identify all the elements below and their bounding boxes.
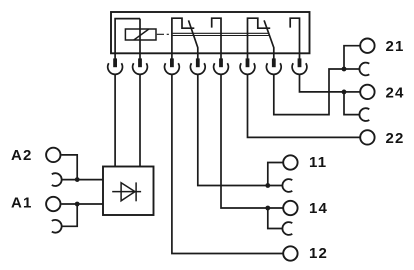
female socket below 24 xyxy=(359,108,369,121)
svg-text:A1: A1 xyxy=(11,195,33,212)
wire node 24 drop to female socket below 24 xyxy=(344,92,359,115)
plug contact circle 24 xyxy=(360,85,374,99)
junction node 11 xyxy=(265,183,270,188)
plug contact circle A1 xyxy=(46,197,60,211)
wire A1 socket riser to node A1 xyxy=(62,204,77,226)
wire node 21 riser to socket 21 xyxy=(344,46,360,69)
svg-text:11: 11 xyxy=(309,154,327,171)
junction node 24 xyxy=(342,90,347,95)
wire terminal 5 to socket 14 net xyxy=(221,75,283,208)
wire terminal 1 to rectifier box xyxy=(114,75,116,167)
wire A2 circle to node A2 xyxy=(61,155,77,180)
relay enclosure box xyxy=(111,12,310,53)
coil wire from terminal 1 (up and over) xyxy=(115,19,140,60)
terminal pin 6 xyxy=(246,58,250,67)
svg-text:A2: A2 xyxy=(11,147,33,164)
female socket below A1 xyxy=(52,220,62,233)
plug contact circle 22 xyxy=(360,130,374,144)
terminal pin 3 xyxy=(170,58,174,67)
wire terminal 6 to socket 22 xyxy=(248,75,360,138)
terminal socket 8 xyxy=(292,63,307,74)
terminal pin 2 xyxy=(138,58,142,67)
contact 1 NO fixed contact (terminal 5) xyxy=(212,18,221,59)
mechanical link double line xyxy=(173,33,269,35)
plug contact circle A2 xyxy=(46,148,60,162)
junction node 21 xyxy=(342,67,347,72)
female socket below A2 xyxy=(52,173,62,186)
female socket below 11 xyxy=(282,179,292,192)
diode D1 lead xyxy=(112,191,141,193)
plug contact circle 14 xyxy=(283,201,297,215)
wire terminal 4 to socket 11 net xyxy=(198,75,283,186)
female socket below 21 xyxy=(359,63,369,76)
contact 2 moving blade (common, terminal 7) xyxy=(264,20,274,59)
terminal pin 1 xyxy=(113,58,117,67)
wire node 24 to socket 24 xyxy=(344,91,360,93)
coil diagonal slash xyxy=(134,29,149,40)
contact 2 NO fixed contact (terminal 8) xyxy=(290,18,299,59)
wire node 14 drop to female socket below 14 xyxy=(268,208,283,229)
diode D1 cathode bar xyxy=(135,182,137,201)
plug contact circle 12 xyxy=(283,246,297,260)
terminal socket 7 xyxy=(266,63,281,74)
junction node A2 xyxy=(75,177,80,182)
terminal pin 8 xyxy=(298,58,302,67)
wire node 11 riser to socket 11 xyxy=(268,163,283,186)
coil wire down to terminal 2 xyxy=(139,19,141,60)
wire terminal 7 to node 21 xyxy=(274,69,344,115)
wire terminal 3 to socket 12 xyxy=(172,75,283,254)
wire terminal 8 to node 24 xyxy=(300,75,345,92)
terminal socket 4 xyxy=(190,63,205,74)
contact 2 NC fixed contact (terminal 6) xyxy=(248,18,271,59)
wire A2 socket to rectifier box xyxy=(62,179,103,181)
junction node A1 xyxy=(75,202,80,207)
plug contact circle 21 xyxy=(360,39,374,53)
terminal pin 7 xyxy=(272,58,276,67)
svg-text:22: 22 xyxy=(386,130,405,147)
terminal pin 5 xyxy=(219,58,223,67)
terminal socket 2 xyxy=(133,63,148,74)
svg-text:21: 21 xyxy=(386,38,405,55)
wire node 21 to female socket below 21 xyxy=(344,68,359,70)
mechanical link dash-dot from coil xyxy=(157,33,169,35)
wire terminal 2 to rectifier box xyxy=(139,75,141,167)
junction node 14 xyxy=(265,206,270,211)
terminal socket 5 xyxy=(214,63,229,74)
terminal socket 3 xyxy=(165,63,180,74)
rectifier box xyxy=(103,167,154,216)
contact 1 NC fixed contact (terminal 3) xyxy=(172,18,194,59)
terminal socket 1 xyxy=(108,63,123,74)
wire A1 circle to rectifier box xyxy=(61,203,103,205)
svg-text:24: 24 xyxy=(386,85,405,102)
contact 1 moving blade (common, terminal 4) xyxy=(189,20,198,59)
diode D1 triangle xyxy=(121,183,135,201)
terminal pin 4 xyxy=(196,58,200,67)
svg-text:12: 12 xyxy=(309,245,328,262)
plug contact circle 11 xyxy=(283,155,297,169)
female socket below 14 xyxy=(282,222,292,235)
relay coil K1 xyxy=(125,29,156,40)
terminal socket 6 xyxy=(240,63,255,74)
svg-text:14: 14 xyxy=(309,200,328,217)
